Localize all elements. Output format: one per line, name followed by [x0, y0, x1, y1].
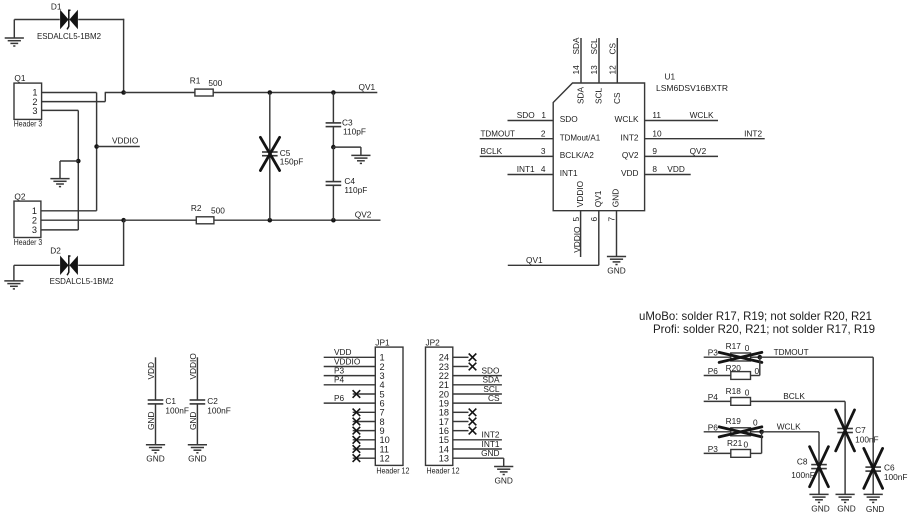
- wire Q2 pin1 (VDDIO): [41, 210, 97, 212]
- wire (gnd to D1): [14, 19, 60, 21]
- wire (D2 right up to QV2): [78, 264, 124, 266]
- resistor R19 0 (not fitted): [719, 416, 762, 437]
- svg-text:INT2: INT2: [744, 128, 762, 138]
- svg-text:7: 7: [607, 217, 617, 222]
- wire (midpoint to ground): [333, 146, 361, 148]
- connector JP2 Header 12: [426, 337, 460, 475]
- svg-text:D1: D1: [51, 1, 62, 11]
- JP2 pin 16 no-connect: [453, 427, 477, 435]
- ground (C3/C4 midpoint): [351, 154, 370, 156]
- junction (C5 top): [268, 90, 273, 95]
- JP2 pin 24 no-connect: [453, 354, 477, 362]
- svg-text:VDDIO: VDDIO: [575, 180, 585, 207]
- JP2 pin 18 no-connect: [453, 409, 477, 417]
- svg-text:TDMOUT: TDMOUT: [774, 347, 809, 357]
- wire Q2 pin2 (QV2): [41, 219, 124, 221]
- svg-text:QV1: QV1: [526, 255, 543, 265]
- svg-text:150pF: 150pF: [280, 157, 304, 167]
- pin 9 QV2: [622, 146, 718, 160]
- svg-text:CS: CS: [608, 43, 618, 55]
- JP2 pin 21 net SDA: [453, 375, 502, 385]
- JP2 pin 22 net SDO: [453, 365, 502, 375]
- svg-text:GND: GND: [146, 454, 164, 464]
- wire Q1 pin2 jog to QV1: [42, 101, 106, 103]
- svg-text:5: 5: [571, 217, 581, 222]
- JP1 pin 5 no-connect: [353, 390, 376, 398]
- JP1 pin 6 net P6: [324, 393, 376, 403]
- svg-text:QV2: QV2: [690, 146, 707, 156]
- svg-text:QV1: QV1: [593, 190, 603, 207]
- svg-text:JP1: JP1: [375, 337, 390, 347]
- svg-text:2: 2: [541, 128, 546, 138]
- JP1 pin 2 net VDDIO: [324, 356, 376, 366]
- svg-text:100nF: 100nF: [791, 470, 815, 480]
- svg-text:VDDIO: VDDIO: [188, 353, 198, 380]
- svg-text:GND: GND: [188, 412, 198, 430]
- svg-text:13: 13: [439, 453, 449, 463]
- pin 11 WCLK: [615, 110, 718, 124]
- ground (below Q1): [50, 178, 69, 180]
- svg-text:ESDALCL5-1BM2: ESDALCL5-1BM2: [50, 276, 114, 286]
- junction (QV2 at D2): [121, 218, 126, 223]
- junction (gnd rail branch): [76, 159, 81, 164]
- connector Q2 Header 3: [14, 191, 43, 247]
- svg-text:CS: CS: [488, 393, 500, 403]
- connector Q1 Header 3: [14, 73, 43, 128]
- svg-text:2: 2: [32, 215, 37, 225]
- svg-text:1: 1: [541, 110, 546, 120]
- svg-text:U1: U1: [665, 72, 676, 82]
- svg-text:GND: GND: [494, 476, 512, 486]
- svg-text:C8: C8: [797, 456, 808, 466]
- svg-text:GND: GND: [481, 448, 499, 458]
- svg-text:VDDIO: VDDIO: [572, 226, 582, 253]
- junction (QV1 at D1): [121, 90, 126, 95]
- svg-text:100nF: 100nF: [884, 472, 908, 482]
- JP1 pin 4 net P4: [324, 375, 376, 385]
- svg-text:R19: R19: [726, 416, 742, 426]
- wire Q1 pin3 to gnd rail: [42, 109, 79, 111]
- capacitor C8 100nF (not fitted): [791, 432, 828, 495]
- wire (D2 to ground): [13, 265, 15, 281]
- svg-text:BCLK: BCLK: [481, 146, 503, 156]
- svg-text:R21: R21: [727, 438, 743, 448]
- net P3 (R21): [704, 444, 731, 454]
- svg-text:TDMOUT: TDMOUT: [481, 128, 516, 138]
- svg-text:3: 3: [32, 225, 37, 235]
- svg-text:110pF: 110pF: [344, 185, 367, 195]
- ground (below D2): [4, 280, 23, 282]
- svg-text:8: 8: [652, 164, 657, 174]
- svg-text:GND: GND: [866, 504, 884, 514]
- svg-text:INT1: INT1: [517, 164, 535, 174]
- svg-text:500: 500: [208, 78, 222, 88]
- IC U1 LSM6DSV16BXTR: [553, 72, 728, 211]
- JP2 pin 13 GND: [453, 448, 504, 467]
- svg-text:SDA: SDA: [576, 86, 586, 104]
- capacitor C1 100nF: [146, 357, 189, 445]
- svg-text:P6: P6: [708, 422, 719, 432]
- ground (C1): [146, 445, 165, 464]
- resistor R21 0: [727, 432, 762, 458]
- svg-text:WCLK: WCLK: [615, 114, 639, 124]
- junction (C5 bottom): [268, 218, 273, 223]
- pin 1 SDO: [508, 110, 579, 124]
- JP1 pin 8 no-connect: [353, 418, 376, 426]
- JP2 pin 19 net CS: [453, 393, 502, 403]
- ground (left of D1): [5, 20, 24, 47]
- capacitor C6 100nF (not fitted): [864, 448, 908, 494]
- capacitor C3 110pF: [326, 93, 366, 148]
- svg-text:GND: GND: [607, 266, 625, 276]
- svg-text:GND: GND: [837, 503, 855, 513]
- svg-text:Profi: solder R20, R21; not so: Profi: solder R20, R21; not solder R17, …: [653, 322, 875, 336]
- pin 7 GND (bottom): [607, 189, 621, 257]
- svg-text:R1: R1: [190, 75, 201, 85]
- svg-text:110pF: 110pF: [343, 127, 366, 137]
- svg-text:VDD: VDD: [146, 362, 156, 380]
- svg-text:500: 500: [211, 206, 225, 216]
- svg-text:10: 10: [652, 128, 662, 138]
- svg-text:INT1: INT1: [560, 168, 578, 178]
- JP1 pin 10 no-connect: [353, 436, 376, 444]
- JP1 pin 11 no-connect: [353, 445, 376, 453]
- svg-text:R20: R20: [726, 363, 742, 373]
- svg-text:SDA: SDA: [571, 37, 581, 55]
- JP2 pin 15 net INT2: [453, 430, 502, 440]
- wire (branch to ground): [60, 160, 78, 162]
- wire (D1 to QV1 junction): [78, 19, 124, 21]
- svg-text:BCLK: BCLK: [783, 391, 805, 401]
- svg-text:TDMout/A1: TDMout/A1: [560, 132, 601, 142]
- svg-text:3: 3: [32, 106, 37, 116]
- svg-text:LSM6DSV16BXTR: LSM6DSV16BXTR: [656, 83, 728, 93]
- svg-text:GND: GND: [188, 454, 206, 464]
- svg-text:0: 0: [755, 366, 760, 376]
- svg-text:Header 3: Header 3: [14, 237, 43, 247]
- junction (C4 bottom): [331, 218, 336, 223]
- net VDDIO: [97, 136, 140, 147]
- svg-text:Header 12: Header 12: [376, 465, 409, 475]
- JP1 pin 12 no-connect: [353, 454, 376, 462]
- pin 10 INT2: [621, 128, 765, 142]
- junction (R17/R20): [758, 355, 763, 360]
- svg-text:SDO: SDO: [517, 110, 536, 120]
- svg-text:ESDALCL5-1BM2: ESDALCL5-1BM2: [37, 31, 101, 41]
- ground (C2): [188, 445, 207, 464]
- resistor R2 500: [124, 203, 226, 224]
- resistor R1 500: [124, 75, 223, 96]
- svg-text:P4: P4: [708, 392, 719, 402]
- resistor R17 0 (not fitted): [719, 341, 762, 362]
- svg-text:GND: GND: [811, 503, 829, 513]
- svg-text:uMoBo: solder R17, R19; not so: uMoBo: solder R17, R19; not solder R20, …: [639, 309, 872, 323]
- svg-text:P3: P3: [708, 444, 719, 454]
- capacitor C2 100nF: [188, 353, 231, 445]
- svg-text:3: 3: [541, 146, 546, 156]
- connector JP1 Header 12: [375, 337, 409, 475]
- JP1 pin 3 net P3: [324, 365, 376, 375]
- svg-text:9: 9: [652, 146, 657, 156]
- resistor R18 0: [726, 386, 751, 405]
- svg-text:SDO: SDO: [560, 114, 579, 124]
- svg-text:SCL: SCL: [589, 38, 599, 55]
- pin 3 BCLK/A2: [480, 146, 595, 160]
- svg-text:P4: P4: [334, 375, 345, 385]
- net P3 (R17): [704, 348, 731, 358]
- ground (C8): [809, 494, 829, 513]
- svg-text:14: 14: [571, 65, 581, 75]
- svg-text:0: 0: [744, 440, 749, 450]
- svg-text:VDD: VDD: [667, 164, 685, 174]
- svg-text:QV1: QV1: [359, 82, 376, 92]
- svg-text:100nF: 100nF: [855, 434, 879, 444]
- net P6 (R20): [704, 366, 731, 376]
- svg-text:P3: P3: [708, 348, 719, 358]
- svg-text:QV2: QV2: [355, 209, 372, 219]
- junction (VDDIO stub): [94, 144, 99, 149]
- diode D1 ESDALCL5-1BM2: [37, 1, 101, 41]
- svg-text:WCLK: WCLK: [690, 110, 714, 120]
- svg-text:Header 12: Header 12: [427, 465, 460, 475]
- svg-text:QV2: QV2: [622, 150, 639, 160]
- svg-text:P6: P6: [334, 393, 345, 403]
- svg-text:C6: C6: [884, 462, 895, 472]
- pin 13 SCL (top): [589, 38, 603, 104]
- wire (D2 left): [14, 264, 60, 266]
- svg-text:VDD: VDD: [621, 168, 639, 178]
- svg-text:6: 6: [589, 217, 599, 222]
- JP1 pin 1 net VDD: [324, 347, 376, 357]
- ground (JP2 pin13): [494, 467, 513, 486]
- svg-text:Header 3: Header 3: [14, 118, 43, 128]
- svg-text:Q2: Q2: [14, 191, 25, 201]
- svg-text:R2: R2: [191, 203, 202, 213]
- svg-text:JP2: JP2: [426, 337, 441, 347]
- svg-text:SCL: SCL: [594, 87, 604, 104]
- pin 14 SDA (top): [571, 37, 585, 104]
- capacitor C5 150pF (not fitted): [260, 93, 303, 221]
- capacitor C4 110pF: [326, 147, 368, 220]
- svg-text:13: 13: [589, 65, 599, 75]
- net WCLK wire: [762, 422, 819, 432]
- JP2 pin 14 net INT1: [453, 439, 502, 449]
- capacitor C7 100nF (not fitted): [836, 401, 879, 494]
- svg-text:BCLK/A2: BCLK/A2: [560, 150, 595, 160]
- svg-text:0: 0: [745, 343, 750, 353]
- ground (C6): [864, 494, 885, 514]
- JP1 pin 9 no-connect: [353, 427, 376, 435]
- svg-text:D2: D2: [50, 246, 61, 256]
- svg-text:WCLK: WCLK: [777, 422, 801, 432]
- junction (R19/R21): [759, 430, 764, 435]
- net TDMOUT wire: [760, 347, 873, 357]
- wire (R1 to QV1 end): [213, 92, 377, 94]
- svg-text:R18: R18: [726, 386, 742, 396]
- junction (C3 top): [331, 90, 336, 95]
- JP2 pin 23 no-connect: [453, 363, 477, 371]
- svg-text:INT2: INT2: [621, 132, 639, 142]
- pin 12 CS (top): [608, 38, 622, 104]
- JP2 pin 17 no-connect: [453, 418, 477, 426]
- svg-text:0: 0: [753, 418, 758, 428]
- JP1 pin 7 no-connect: [353, 409, 376, 417]
- diode D2 ESDALCL5-1BM2: [50, 246, 114, 286]
- pin 4 INT1: [508, 164, 579, 178]
- svg-text:11: 11: [652, 110, 661, 120]
- pin 8 VDD: [621, 164, 691, 178]
- svg-text:0: 0: [745, 388, 750, 398]
- net TDMOUT down to C6: [872, 357, 874, 467]
- net P6 (R19): [704, 422, 731, 432]
- pin 2 TDMout/A1: [480, 128, 601, 142]
- svg-text:VDDIO: VDDIO: [112, 136, 139, 146]
- svg-text:12: 12: [380, 453, 390, 463]
- wire Q1 pin1 to VDDIO rail: [42, 92, 97, 94]
- junction (C3/C4 midpoint): [331, 145, 336, 150]
- svg-text:4: 4: [541, 164, 546, 174]
- svg-text:P6: P6: [708, 366, 719, 376]
- JP2 pin 20 net SCL: [453, 384, 502, 394]
- net P4 (R18): [704, 392, 731, 402]
- wire Q2 pin3 (gnd): [41, 229, 78, 231]
- wire (R2 to QV2 end): [214, 219, 381, 221]
- ground (C7): [836, 494, 856, 513]
- svg-text:Q1: Q1: [14, 73, 25, 83]
- svg-text:GND: GND: [611, 189, 621, 207]
- net BCLK wire: [751, 391, 846, 401]
- svg-text:100nF: 100nF: [165, 405, 189, 415]
- svg-text:GND: GND: [146, 412, 156, 430]
- pin 6 QV1 (bottom): [508, 190, 603, 265]
- svg-text:R17: R17: [726, 341, 742, 351]
- pin 5 VDDIO (bottom): [571, 180, 585, 257]
- ground (U1 pin7): [607, 257, 626, 276]
- svg-text:12: 12: [608, 65, 618, 75]
- svg-text:CS: CS: [612, 92, 622, 104]
- svg-text:100nF: 100nF: [207, 405, 231, 415]
- resistor R20 0: [726, 357, 760, 379]
